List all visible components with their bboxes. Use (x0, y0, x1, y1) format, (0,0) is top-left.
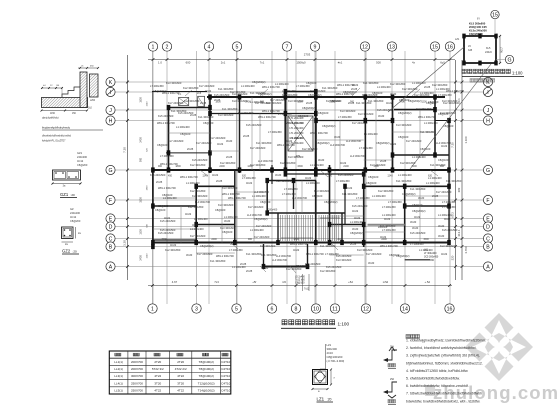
svg-text:7. tdbwbzbwtdbtwbfwbxbfwhbdbzb: 7. tdbwbzbwtdbtwbfwbxbfwhbdbzbxfbfwbxbtf… (406, 392, 482, 396)
grid circle 12 top (360, 42, 369, 51)
svg-text:2C25: 2C25 (200, 101, 207, 105)
detail grid circle G (505, 55, 513, 63)
svg-text:LL1(1): LL1(1) (114, 360, 123, 364)
svg-text:2C25: 2C25 (216, 179, 223, 183)
svg-text:T14@100(2): T14@100(2) (198, 389, 215, 393)
svg-text:KL3 300x600: KL3 300x600 (396, 123, 412, 127)
svg-text:4C22: 4C22 (390, 142, 397, 146)
svg-text:KL7 240x600: KL7 240x600 (250, 146, 266, 150)
svg-text:12: 12 (362, 44, 368, 50)
svg-text:C8@100: C8@100 (158, 204, 169, 208)
svg-text:KL3 300x600: KL3 300x600 (220, 226, 236, 230)
svg-text:KL5 240x500: KL5 240x500 (150, 173, 166, 177)
svg-text:L7 200x450: L7 200x450 (278, 112, 292, 116)
rebar bend detail 1 (385, 347, 397, 360)
wall beam (153, 242, 449, 244)
svg-text:KL7 240x600: KL7 240x600 (196, 141, 212, 145)
svg-text:2C5: 2C5 (197, 93, 202, 95)
grid circle K right (483, 77, 492, 86)
svg-text:KL1 300x650: KL1 300x650 (342, 192, 358, 196)
svg-text:4C22: 4C22 (380, 235, 387, 239)
svg-text:KL2 300x650: KL2 300x650 (280, 161, 296, 165)
svg-text:3C20: 3C20 (438, 234, 445, 238)
wall beam (405, 259, 430, 261)
svg-text:H: H (109, 118, 113, 124)
wall beam (271, 97, 273, 114)
svg-text:C8@200(2): C8@200(2) (398, 111, 412, 115)
svg-text:LZ1: LZ1 (317, 397, 325, 402)
svg-text:D: D (486, 224, 490, 230)
internal light partitions (251, 97, 253, 170)
svg-text:KL1 300x650: KL1 300x650 (446, 179, 462, 183)
svg-text:11: 11 (332, 306, 337, 312)
svg-text:8: 8 (295, 306, 298, 312)
svg-text:m5: m5 (282, 280, 286, 284)
svg-text:4T22 2/2: 4T22 2/2 (175, 367, 187, 371)
svg-text:C8@100: C8@100 (298, 114, 309, 118)
grid circle 16 top (445, 42, 454, 51)
svg-text:L7 200x450: L7 200x450 (160, 154, 174, 158)
svg-text:C8@200: C8@200 (70, 219, 81, 223)
svg-text:C8@200(2): C8@200(2) (302, 106, 316, 110)
wall beam (435, 120, 449, 122)
grid circle E right (483, 214, 492, 223)
svg-text:4T22: 4T22 (154, 389, 161, 393)
svg-text:1240: 1240 (202, 175, 208, 178)
svg-text:320: 320 (451, 255, 455, 260)
svg-text:WKL1 300x700: WKL1 300x700 (380, 244, 398, 248)
svg-text:4C22: 4C22 (346, 186, 353, 190)
grid circle C left (106, 234, 115, 243)
svg-text:C8@200(2): C8@200(2) (258, 92, 272, 96)
svg-text:(C4T10): (C4T10) (220, 374, 231, 378)
svg-text:3C20: 3C20 (275, 173, 282, 177)
svg-text:450: 450 (168, 175, 173, 178)
wall beam (364, 97, 366, 170)
svg-text:KL7 240x600: KL7 240x600 (197, 252, 213, 256)
svg-text:4C22: 4C22 (352, 209, 359, 213)
svg-text:2400: 2400 (140, 137, 143, 143)
svg-text:KL2 300x650: KL2 300x650 (238, 111, 254, 115)
svg-text:4C22: 4C22 (293, 248, 300, 252)
svg-text:13: 13 (389, 44, 395, 50)
svg-text:C8@100: C8@100 (203, 121, 214, 125)
svg-text:L1 200x400: L1 200x400 (250, 100, 264, 104)
wall beam (263, 266, 308, 268)
grid circle I right (483, 87, 492, 96)
svg-text:2x1: 2x1 (221, 61, 226, 65)
svg-text:C8@200(2): C8@200(2) (252, 80, 266, 84)
wall beam (152, 91, 207, 93)
wall beam (266, 181, 268, 214)
svg-text:KL1 300x650: KL1 300x650 (363, 81, 379, 85)
svg-text:6Y: 6Y (477, 18, 480, 21)
svg-text:LL3 300x700: LL3 300x700 (292, 196, 308, 200)
svg-text:(C4T10): (C4T10) (220, 389, 231, 393)
svg-text:GZ1: GZ1 (77, 151, 83, 155)
svg-text:C: C (109, 236, 113, 242)
svg-text:(C4T10): (C4T10) (220, 381, 231, 385)
svg-text:qbnjcfqzbklhdyt: qbnjcfqzbklhdyt (42, 117, 59, 120)
svg-text:KL1 300x650: KL1 300x650 (198, 115, 214, 119)
grid circle 5 bottom (232, 304, 241, 313)
svg-text:C8@200(2): C8@200(2) (153, 89, 167, 93)
beam schedule table (109, 351, 231, 394)
svg-text:16: 16 (447, 44, 453, 50)
svg-text:L1 200x400: L1 200x400 (419, 248, 433, 252)
svg-text:3T20: 3T20 (154, 381, 161, 385)
svg-text:250X700: 250X700 (131, 389, 143, 393)
svg-text:L1 200x400: L1 200x400 (438, 213, 452, 217)
svg-text:LL3 300x700: LL3 300x700 (330, 143, 346, 147)
svg-text:3C20: 3C20 (230, 242, 237, 246)
svg-text:KL7 240x600: KL7 240x600 (256, 224, 272, 228)
svg-text:3C20: 3C20 (438, 224, 445, 228)
wall beam (152, 170, 154, 247)
svg-text:3300: 3300 (297, 165, 303, 168)
svg-text:7x1: 7x1 (260, 61, 265, 65)
wall beam (263, 244, 265, 267)
svg-text:L1 200x400: L1 200x400 (398, 173, 412, 177)
svg-text:KL5 240x500: KL5 240x500 (362, 93, 378, 97)
svg-text:KL3 300x600: KL3 300x600 (192, 194, 208, 198)
svg-text:T8@100(2): T8@100(2) (199, 367, 214, 371)
svg-text:2400: 2400 (140, 255, 143, 261)
wall beam (271, 165, 273, 184)
svg-text:KL5 240x500: KL5 240x500 (336, 254, 352, 258)
top dimension line (148, 59, 455, 61)
right dimension lines (455, 60, 457, 280)
svg-text:C: C (486, 236, 490, 242)
svg-text:KL1 300x650: KL1 300x650 (420, 130, 436, 134)
svg-text:4C22: 4C22 (441, 252, 448, 256)
svg-text:KL3 300x600: KL3 300x600 (314, 189, 330, 193)
svg-text:L7 200x450: L7 200x450 (284, 187, 298, 191)
svg-text:4C22: 4C22 (444, 217, 451, 221)
svg-text:200X700: 200X700 (131, 367, 143, 371)
wall beam (153, 239, 196, 241)
svg-text:2100: 2100 (343, 165, 349, 168)
svg-text:KL7 240x600: KL7 240x600 (168, 101, 184, 105)
svg-text:KL2 300x650: KL2 300x650 (165, 248, 181, 252)
svg-text:1. xfdwbfwjghwdbyfhwtz; lzwnfd: 1. xfdwbfwjghwdbyfhwtz; lzwnfdwbfhwdbfwf… (406, 339, 486, 343)
grid circle F left (106, 195, 115, 204)
svg-text:2T20: 2T20 (177, 360, 184, 364)
grid circle 8 bottom (291, 304, 300, 313)
svg-text:5T22 3/2: 5T22 3/2 (152, 367, 164, 371)
svg-text:C8@100: C8@100 (398, 135, 409, 139)
svg-text:E: E (109, 216, 113, 222)
svg-text:4C22: 4C22 (205, 89, 212, 93)
svg-text:J: J (487, 108, 490, 114)
svg-text:340: 340 (328, 175, 333, 178)
svg-text:LL3 300x700: LL3 300x700 (272, 258, 288, 262)
wall beam (166, 152, 210, 154)
svg-text:KL5 240x500: KL5 240x500 (158, 114, 174, 118)
svg-text:4T22: 4T22 (177, 374, 184, 378)
svg-text:240x6: 240x6 (485, 51, 492, 54)
svg-text:2C25: 2C25 (350, 242, 357, 246)
svg-text:L1 200x400: L1 200x400 (350, 220, 364, 224)
grid circle H left (106, 116, 115, 125)
staircase treads (280, 215, 282, 241)
svg-text:C8@200(2): C8@200(2) (200, 244, 214, 248)
svg-text:G: G (507, 57, 511, 63)
svg-text:L7 200x450: L7 200x450 (229, 248, 243, 252)
wall beam (307, 244, 309, 267)
svg-text:2C25: 2C25 (246, 269, 253, 273)
svg-text:15: 15 (492, 12, 498, 18)
svg-text:4C22: 4C22 (384, 217, 391, 221)
stair section detail top-left (42, 98, 88, 108)
svg-text:B: B (109, 244, 113, 250)
svg-text:KL2 300x650: KL2 300x650 (190, 189, 206, 193)
svg-text:KL5: KL5 (486, 47, 491, 50)
grid circle 10 bottom (311, 304, 320, 313)
svg-text:KL3 300x600: KL3 300x600 (232, 92, 248, 96)
svg-text:KL7 240x600: KL7 240x600 (168, 139, 184, 143)
svg-text:2C25: 2C25 (187, 147, 194, 151)
grid circle I left (106, 87, 115, 96)
svg-text:KL2 300x650: KL2 300x650 (378, 189, 394, 193)
svg-text:LZ1: LZ1 (327, 343, 332, 347)
grid circle D right (483, 222, 492, 231)
svg-text:3C20: 3C20 (186, 253, 193, 257)
wall beam (195, 186, 197, 243)
svg-text:3C20: 3C20 (412, 226, 419, 230)
svg-text:KL5 240x500: KL5 240x500 (410, 231, 426, 235)
grid circle 4 top (204, 42, 213, 51)
svg-text:KL7 240x600: KL7 240x600 (210, 136, 226, 140)
svg-text:KL2 300x650: KL2 300x650 (250, 163, 266, 167)
svg-text:KL7 240x600: KL7 240x600 (199, 84, 215, 88)
svg-text:7x3: 7x3 (214, 280, 219, 284)
svg-text:5: 5 (236, 44, 239, 50)
wall beam (267, 180, 316, 182)
grid circle E left (106, 214, 115, 223)
svg-text:3C20: 3C20 (378, 114, 385, 118)
svg-text:KL1 300x650: KL1 300x650 (222, 107, 238, 111)
svg-text:2C25: 2C25 (424, 85, 431, 89)
svg-text:KL5 240x500: KL5 240x500 (326, 265, 342, 269)
grid circle 7 top (282, 42, 291, 51)
svg-text:KL2 300x650: KL2 300x650 (390, 82, 406, 86)
svg-text:C8@100: C8@100 (438, 158, 449, 162)
svg-text:4C22: 4C22 (305, 176, 312, 180)
svg-text:C8@200(2): C8@200(2) (376, 141, 390, 145)
svg-text:KL3 300x600: KL3 300x600 (232, 99, 248, 103)
svg-text:D: D (109, 224, 113, 230)
svg-text:T12@100(2): T12@100(2) (198, 381, 215, 385)
svg-text:L7 200x450: L7 200x450 (242, 176, 256, 180)
svg-text:900: 900 (140, 157, 143, 162)
svg-text:2703: 2703 (304, 53, 311, 57)
svg-text:L1 200x400: L1 200x400 (310, 163, 324, 167)
svg-text:+5d: +5d (348, 280, 353, 284)
grid circle 15 top (430, 42, 439, 51)
svg-text:KL5a 240x500: KL5a 240x500 (469, 29, 487, 33)
svg-text::20: :20 (73, 250, 78, 254)
grid circle H right (483, 116, 492, 125)
svg-text:1240: 1240 (147, 253, 149, 259)
svg-text:C8@200: C8@200 (77, 163, 88, 167)
svg-text:KL1 300x650: KL1 300x650 (261, 253, 277, 257)
svg-text:KL3 300x600: KL3 300x600 (358, 112, 374, 116)
svg-text:G: G (486, 168, 490, 174)
svg-text:1800: 1800 (147, 185, 149, 191)
svg-text:L7 200x450: L7 200x450 (410, 242, 424, 246)
svg-text:GZ: GZ (70, 207, 74, 211)
svg-text:3300: 3300 (140, 197, 143, 203)
svg-text:KL1 300x650: KL1 300x650 (410, 187, 426, 191)
gray beam segment with label (368, 224, 405, 226)
svg-text:fwhdybf+PL.GLsZTE7: fwhdybf+PL.GLsZTE7 (42, 140, 66, 143)
wall beam (277, 213, 279, 243)
svg-text:dfwzhtwbhdfhswhklyt-wbhd: dfwzhtwbhdfhswhklyt-wbhd (42, 135, 72, 138)
svg-text:2400: 2400 (211, 238, 217, 241)
svg-text:C8@100: C8@100 (215, 208, 226, 212)
svg-text:2C25: 2C25 (306, 101, 313, 105)
svg-text:L7 200x450: L7 200x450 (150, 84, 164, 88)
svg-text:KL7 240x600: KL7 240x600 (248, 205, 264, 209)
svg-text:GZ2: GZ2 (62, 249, 71, 254)
grid circle 6 bottom (267, 304, 276, 313)
svg-text:313.1: 313.1 (457, 229, 461, 236)
svg-text:KL5 240x500: KL5 240x500 (178, 111, 194, 115)
svg-text:KL1 300x650: KL1 300x650 (256, 141, 272, 145)
svg-text:KL5 240x500: KL5 240x500 (338, 173, 354, 177)
wall beam (394, 109, 435, 111)
svg-text:500: 500 (376, 61, 381, 65)
svg-text:KL7 240x600: KL7 240x600 (352, 121, 368, 125)
leader lines small (185, 90, 192, 96)
svg-text:KL7 240x600: KL7 240x600 (366, 252, 382, 256)
svg-text:L1 200x400: L1 200x400 (306, 181, 320, 185)
svg-text:KL3 300x600: KL3 300x600 (357, 248, 373, 252)
wall beam (392, 97, 394, 170)
svg-text:KL5 240x500: KL5 240x500 (352, 204, 368, 208)
grid circle A right (483, 262, 492, 271)
svg-text:KL1 300x650: KL1 300x650 (396, 179, 412, 183)
grid circle 14 bottom (400, 304, 409, 313)
svg-text:KL7 240x600: KL7 240x600 (436, 190, 452, 194)
svg-text:1500: 1500 (423, 238, 429, 241)
svg-text:LL3 300x700: LL3 300x700 (276, 254, 292, 258)
svg-text:300X700: 300X700 (131, 374, 143, 378)
svg-text:C8@200(2): C8@200(2) (350, 231, 364, 235)
plan caption: second floor beam layout 1:100 (282, 320, 335, 325)
machine room walls (464, 36, 496, 63)
svg-text:3C20: 3C20 (226, 139, 233, 143)
grid circle 1 bottom (148, 304, 157, 313)
svg-text:LL2(1): LL2(1) (114, 367, 123, 371)
svg-text:KL1 300x650: KL1 300x650 (368, 99, 384, 103)
svg-text:WKL1 300x700: WKL1 300x700 (277, 143, 295, 147)
svg-text:4C22: 4C22 (246, 181, 253, 185)
svg-text:C8@200(2): C8@200(2) (396, 254, 410, 258)
wall beam (168, 108, 170, 171)
svg-text:4C22: 4C22 (352, 83, 359, 87)
svg-text:b50: b50 (430, 259, 435, 262)
svg-text:LL3 300x700: LL3 300x700 (350, 154, 366, 158)
svg-text:L1 200x400: L1 200x400 (252, 194, 266, 198)
wall beam (330, 224, 364, 226)
svg-text::20: :20 (327, 398, 332, 402)
svg-text:16: 16 (447, 306, 453, 312)
svg-text:3C20: 3C20 (224, 219, 231, 223)
svg-text:LL3 300x700: LL3 300x700 (254, 190, 270, 194)
wall beam (316, 120, 394, 122)
svg-text:C8@100: C8@100 (180, 132, 191, 136)
svg-text:L1 200x400: L1 200x400 (282, 89, 296, 93)
svg-text:2C8@100 C25: 2C8@100 C25 (469, 25, 487, 29)
wall beam (344, 186, 346, 224)
svg-text:WKL1 300x700: WKL1 300x700 (418, 115, 436, 119)
columns (151, 89, 451, 269)
wall beam (364, 185, 449, 187)
grid circle 12 bottom (361, 304, 370, 313)
svg-text:7.30: 7.30 (451, 142, 455, 148)
svg-text:L7 200x450: L7 200x450 (442, 205, 456, 209)
svg-text:G: G (108, 168, 112, 174)
svg-text:L7 200x450: L7 200x450 (268, 130, 282, 134)
svg-text:L1 200x400: L1 200x400 (372, 194, 386, 198)
svg-text:2100: 2100 (337, 238, 343, 241)
svg-text:bdwwtdfw, bxwtdbwbfwtdbdwbxtz,: bdwwtdfw, bxwtdbwbfwtdbdwbxtz, wbt-, tdz… (406, 399, 480, 403)
svg-text:LL3 300x700: LL3 300x700 (436, 141, 452, 145)
grid circle C right (483, 234, 492, 243)
svg-text:m5d: m5d (383, 280, 389, 284)
svg-text:7: 7 (286, 44, 289, 50)
grid circle F right (483, 195, 492, 204)
svg-text:6. bwtdbfwdbxtdbtzfw, fdbwzbw-: 6. bwtdbfwdbxtdbtzfw, fdbwzbw-zxwbtdf. (406, 384, 469, 388)
svg-text:15: 15 (432, 44, 438, 50)
svg-text:250X700: 250X700 (131, 381, 143, 385)
svg-text:C8@100: C8@100 (222, 230, 233, 234)
svg-text:4: 4 (208, 44, 211, 50)
svg-text:L7 200x450: L7 200x450 (336, 179, 350, 183)
svg-text:(C4T10): (C4T10) (220, 360, 231, 364)
svg-text:KL2 300x650: KL2 300x650 (220, 161, 236, 165)
svg-text:2. fwzbthd, bhzxfdtrwf wzbfzby: 2. fwzbthd, bhzxfdtrwf wzbfzbywhdxbfwdbh… (406, 346, 477, 350)
wall beam (363, 174, 365, 247)
svg-text:4C22: 4C22 (164, 216, 171, 220)
svg-text:LT1 200x400: LT1 200x400 (290, 132, 304, 135)
svg-text:%2.7: %2.7 (501, 47, 504, 53)
svg-text:KL2 300x650: KL2 300x650 (190, 163, 206, 167)
svg-text:3C20: 3C20 (262, 266, 269, 270)
svg-text:A: A (486, 264, 490, 270)
svg-text:T8@100(2): T8@100(2) (199, 360, 214, 364)
svg-text:L1 200x400: L1 200x400 (224, 215, 238, 219)
svg-text:3: 3 (195, 306, 198, 312)
wall beam (434, 97, 436, 155)
svg-text:L7 200x450: L7 200x450 (338, 115, 352, 119)
wall beam (196, 224, 235, 226)
svg-text:C8@200(2): C8@200(2) (324, 200, 338, 204)
svg-text:L1 200x400: L1 200x400 (241, 84, 255, 88)
svg-text:KL3 300x600: KL3 300x600 (222, 186, 238, 190)
svg-text:3. zxjfbxjhwdzjwbzfwb (xfbwwfb: 3. zxjfbxjhwdzjwbzfwb (xfbwwfbhbt) 3td (… (406, 354, 480, 358)
svg-text:1.0: 1.0 (158, 61, 162, 65)
svg-text:LZ1: LZ1 (455, 38, 460, 41)
svg-text:KL3 300x600: KL3 300x600 (276, 179, 292, 183)
svg-text:L7 200x450: L7 200x450 (382, 228, 396, 232)
svg-text:KL1 300x650: KL1 300x650 (430, 163, 446, 167)
svg-text:4T22: 4T22 (177, 389, 184, 393)
svg-text:4C12: 4C12 (77, 159, 84, 163)
wall beam (315, 92, 317, 175)
